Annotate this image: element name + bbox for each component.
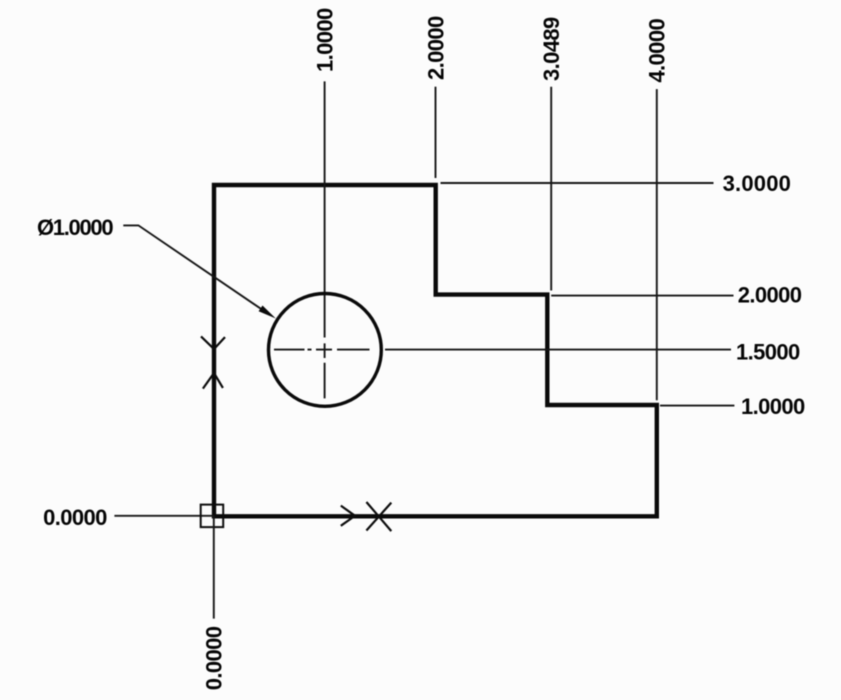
extension line 3.0489 [550,87,552,291]
extension line 4.0000 [656,89,658,400]
part outline [214,185,657,516]
svg-text:1.0000: 1.0000 [312,8,337,72]
circle (hole) [269,294,382,407]
svg-text:3.0000: 3.0000 [723,171,792,196]
leader arrowhead [259,306,276,319]
svg-text:0.0000: 0.0000 [43,505,107,530]
svg-text:3.0489: 3.0489 [539,17,564,81]
centerline horizontal (1.5000) [274,349,731,351]
centerline vertical dashes [324,343,326,398]
leader 2.0000 [551,295,733,297]
svg-text:4.0000: 4.0000 [645,19,670,83]
bottom edge X mark [366,502,391,531]
origin square marker [201,505,224,527]
svg-text:0.0000: 0.0000 [202,626,227,690]
left edge arrow down [201,336,225,349]
svg-text:2.0000: 2.0000 [424,16,449,80]
leader 3.0000 [441,182,714,184]
extension line 2.0000 [435,87,437,178]
left edge arrow up [203,373,223,389]
bottom edge arrow right [341,506,355,526]
extension line 1.0000 (vertical centerline upper) [324,81,326,337]
left leader 0.0000 [114,515,214,517]
svg-text:2.0000: 2.0000 [738,283,802,308]
svg-text:Ø1.0000: Ø1.0000 [37,215,113,240]
bottom extension 0.0000 [213,516,215,618]
svg-text:1.5000: 1.5000 [736,339,800,364]
leader 1.0000 right [660,405,734,407]
svg-text:1.0000: 1.0000 [741,394,805,419]
